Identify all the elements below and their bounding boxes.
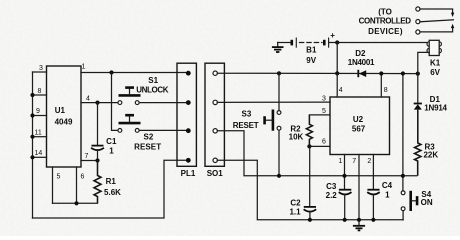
relay K1 contacts	[416, 7, 420, 11]
svg-text:PL1: PL1	[181, 169, 196, 178]
capacitor C1	[97, 103, 99, 145]
pin 7	[358, 155, 360, 226]
battery B1	[278, 42, 292, 44]
svg-text:6V: 6V	[430, 68, 440, 77]
svg-text:1.1: 1.1	[289, 207, 301, 216]
svg-text:8: 8	[384, 87, 388, 94]
svg-text:4: 4	[339, 87, 343, 94]
svg-text:1: 1	[385, 190, 390, 199]
op-amp U1	[47, 66, 82, 167]
node C1 junction	[95, 101, 99, 105]
pin 8	[380, 74, 382, 98]
pin 1 wire to PL1	[81, 72, 188, 74]
svg-text:22K: 22K	[423, 150, 438, 159]
svg-text:R1: R1	[106, 177, 117, 186]
pin 14	[33, 156, 47, 158]
switch S1 UNLOCK	[118, 101, 122, 105]
svg-text:14: 14	[35, 150, 43, 157]
wire pins 5-6 to R1	[53, 202, 98, 204]
wire +V line SO1 pin1 to D1 node	[217, 72, 418, 74]
svg-text:1N4001: 1N4001	[348, 58, 375, 67]
resistor R3	[415, 110, 421, 176]
pin 8	[33, 94, 47, 96]
svg-text:RESET: RESET	[233, 121, 259, 130]
svg-text:C1: C1	[106, 137, 117, 146]
svg-text:U2: U2	[353, 115, 364, 124]
pin 5	[309, 114, 330, 116]
wire SO1 pin4 to ground rail	[217, 160, 403, 220]
resistor R1	[94, 161, 101, 204]
pin 4 wire	[81, 102, 118, 104]
svg-text:S2: S2	[144, 132, 154, 141]
resistor R2	[306, 115, 312, 146]
svg-text:C3: C3	[326, 182, 337, 191]
svg-text:S1: S1	[148, 76, 158, 85]
node junction S2 riser	[109, 70, 113, 74]
svg-text:5: 5	[322, 108, 326, 115]
wire B1+ down to +V line	[336, 43, 338, 74]
svg-text:10K: 10K	[289, 132, 304, 141]
svg-text:6: 6	[322, 138, 326, 145]
node left bus	[32, 72, 34, 218]
svg-text:567: 567	[352, 125, 366, 134]
capacitor C2	[309, 146, 311, 206]
switch S4 ON	[401, 191, 405, 195]
ground	[353, 225, 365, 227]
pin 1	[344, 155, 346, 190]
svg-text:ON: ON	[421, 198, 433, 207]
pin 2	[372, 155, 374, 190]
svg-text:4: 4	[86, 96, 90, 103]
svg-text:9: 9	[36, 108, 40, 115]
svg-text:1N914: 1N914	[424, 103, 447, 112]
wire SO1 pin2 to U2 pin3	[217, 101, 330, 103]
svg-text:2.2: 2.2	[326, 191, 338, 200]
svg-text:6: 6	[81, 174, 85, 181]
svg-text:9V: 9V	[306, 56, 316, 65]
capacitor C3	[339, 189, 351, 191]
svg-text:+: +	[330, 31, 335, 40]
pin 9	[33, 115, 47, 117]
svg-text:2: 2	[367, 158, 371, 165]
switch S3 RESET	[277, 71, 281, 75]
connector PL1	[177, 63, 196, 166]
svg-text:1: 1	[339, 158, 343, 165]
wire S2 riser	[112, 73, 118, 131]
wire	[33, 71, 47, 73]
pin 6	[309, 145, 330, 147]
svg-text:3: 3	[39, 65, 43, 72]
svg-text:8: 8	[38, 88, 42, 95]
diode D2	[359, 70, 366, 77]
svg-text:(TO: (TO	[378, 7, 392, 16]
svg-text:C4: C4	[382, 181, 393, 190]
svg-text:11: 11	[35, 129, 42, 136]
wire +V to S4	[402, 74, 404, 192]
svg-text:4049: 4049	[55, 118, 73, 127]
pin 5	[52, 167, 54, 203]
pin 11	[33, 136, 47, 138]
svg-text:1: 1	[109, 147, 114, 156]
svg-text:3: 3	[322, 95, 326, 102]
ground B1	[277, 43, 279, 47]
svg-text:S3: S3	[242, 110, 252, 119]
pin 7 wire	[81, 160, 98, 162]
connector SO1	[205, 63, 224, 166]
svg-text:7: 7	[352, 158, 356, 165]
svg-text:D2: D2	[355, 49, 366, 58]
wire K1 bottom lead	[418, 52, 429, 73]
svg-text:U1: U1	[55, 106, 66, 115]
svg-text:SO1: SO1	[207, 169, 224, 178]
wire SO1 pin3 to lower bus	[217, 131, 417, 176]
wire bottom rail to PL1 pin4	[33, 160, 189, 218]
svg-text:B1: B1	[306, 46, 317, 55]
pin 4	[336, 73, 338, 97]
svg-text:UNLOCK: UNLOCK	[136, 86, 168, 95]
svg-text:CONTROLLED: CONTROLLED	[359, 17, 412, 26]
pin 6	[76, 167, 78, 203]
relay K1 coil	[427, 42, 431, 46]
svg-text:DEVICE): DEVICE)	[368, 27, 403, 36]
diode D1	[416, 72, 420, 76]
svg-text:1: 1	[82, 64, 86, 71]
svg-text:5: 5	[57, 174, 61, 181]
svg-text:RESET: RESET	[134, 143, 161, 152]
capacitor C4	[367, 189, 379, 191]
op-amp U2	[330, 97, 390, 155]
switch S2 RESET	[118, 129, 122, 133]
svg-text:7: 7	[85, 153, 89, 160]
svg-text:C2: C2	[290, 199, 301, 208]
svg-text:5.6K: 5.6K	[104, 188, 121, 197]
svg-text:K1: K1	[430, 59, 441, 68]
